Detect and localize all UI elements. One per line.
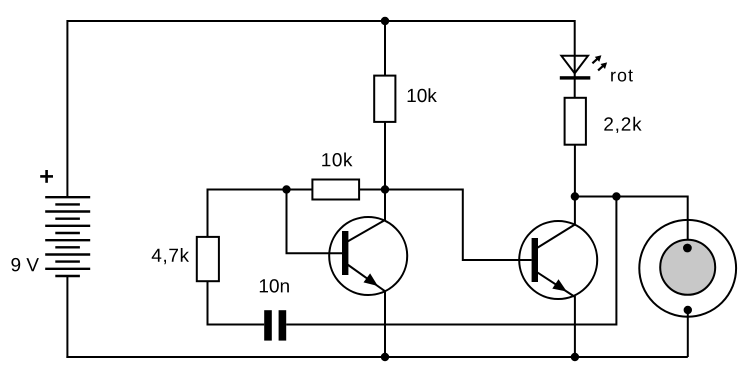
wire: 10k vertical to collector node T1 <box>384 122 386 190</box>
node: junction on top rail above 10k <box>381 17 389 25</box>
transistor T2 body circle <box>519 221 597 299</box>
label: 10n <box>260 279 289 293</box>
wire: horizontal 10k right to collector node <box>359 189 385 191</box>
wire: 4,7k bottom to capacitor left plate <box>208 281 265 324</box>
resistor 2,2k <box>565 98 586 145</box>
resistor 4,7k <box>197 237 219 281</box>
node: T2 collector junction <box>571 192 579 200</box>
wire: left rail from battery - to bottom rail <box>66 276 68 358</box>
label: 2,2k <box>604 117 641 133</box>
LED light arrow 2 <box>598 62 607 70</box>
LED D1 triangle (anode) <box>561 56 588 74</box>
capacitor C 10n plates <box>264 310 286 340</box>
transistor T1 emitter arrowhead <box>364 273 378 286</box>
wire: T2 emitter to bottom rail <box>574 296 576 357</box>
wire: T2 collector up to junction <box>574 197 576 226</box>
node: junction of feedback riser on collector rail <box>612 192 620 200</box>
transistor T1 collector line <box>348 220 386 242</box>
wire: bottom ground rail <box>66 356 687 358</box>
wire: right riser from cap wire up to T2 collector rail <box>615 197 617 326</box>
wire: speaker top lead down <box>687 196 689 249</box>
node: T1 collector junction <box>381 185 389 193</box>
label: 9 V <box>11 258 39 272</box>
wire: coupling from T1 collector node to T2 base <box>385 190 532 261</box>
wire: collector junction to speaker branch <box>575 196 688 198</box>
speaker LS1 bottom terminal dot <box>684 306 692 314</box>
transistor T2 base bar <box>532 238 538 282</box>
wire: capacitor right plate to right riser <box>286 324 616 326</box>
resistor 10k horizontal <box>312 180 359 200</box>
transistor T2 emitter arrowhead <box>552 279 567 291</box>
wire: 4,7k branch top (base node left to resistor) <box>208 190 287 237</box>
LED light arrow 1 <box>592 55 601 63</box>
label: 10k (horizontal resistor) <box>322 153 352 167</box>
battery B1 9V plates <box>45 197 90 276</box>
speaker LS1 top terminal dot <box>683 244 692 253</box>
wire: left rail from top to battery + <box>66 20 68 197</box>
transistor T1 body circle <box>329 217 407 295</box>
wire: LED branch from top rail down <box>574 20 576 77</box>
wire: LED cathode to 2,2k <box>574 79 576 98</box>
node: T2 emitter on bottom rail <box>571 353 579 361</box>
resistor 10k vertical <box>374 76 395 122</box>
transistor T1 base bar <box>342 231 348 275</box>
transistor T2 emitter line <box>537 272 575 297</box>
speaker LS1 outer circle <box>639 220 736 317</box>
wire: top supply rail <box>67 20 574 22</box>
wire: T1 emitter to bottom rail <box>384 291 386 357</box>
wire: T1 base connection (down then right to base bar) <box>287 190 343 254</box>
label: 4,7k <box>152 248 189 264</box>
LED D1 cathode bar <box>560 76 591 79</box>
node: T1 base junction <box>282 185 290 193</box>
transistor T2 collector line <box>537 225 575 249</box>
label: battery plus sign <box>40 170 53 183</box>
label: rot <box>611 70 633 82</box>
wire: top rail to R 10k vertical <box>384 21 386 76</box>
wire: speaker bottom lead to bottom rail <box>687 310 689 357</box>
label: 10k (vertical resistor) <box>408 88 437 102</box>
wire: base node to horizontal 10k left <box>287 189 313 191</box>
transistor T1 emitter line <box>348 265 386 292</box>
wire: T1 collector down from junction <box>384 190 386 222</box>
node: T1 emitter on bottom rail <box>381 353 389 361</box>
speaker LS1 inner membrane (gray) <box>660 240 715 295</box>
wire: 2,2k bottom to T2 collector junction <box>574 145 576 197</box>
